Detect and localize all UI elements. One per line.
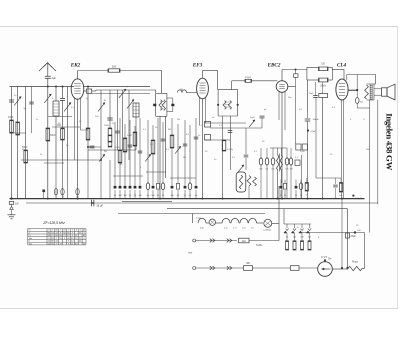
svg-text:SuWe: SuWe xyxy=(256,244,263,247)
svg-text:4,2t: 4,2t xyxy=(224,226,228,229)
svg-text:Takt: Takt xyxy=(29,237,33,240)
svg-text:1M: 1M xyxy=(290,169,293,171)
svg-text:70pF: 70pF xyxy=(309,93,315,95)
svg-text:Ingelen 438 GW: Ingelen 438 GW xyxy=(385,113,395,170)
svg-text:Regw: Regw xyxy=(352,261,358,264)
svg-text:Tr: Tr xyxy=(363,118,365,121)
svg-text:GW: GW xyxy=(366,149,370,151)
svg-text:5M: 5M xyxy=(168,129,171,131)
svg-text:Fr: Fr xyxy=(297,226,299,229)
svg-text:1,7t: 1,7t xyxy=(233,226,237,229)
svg-text:Kr: Kr xyxy=(29,230,31,232)
svg-text:0,5Mg: 0,5Mg xyxy=(227,149,234,151)
svg-text:EF3: EF3 xyxy=(192,63,203,69)
svg-text:1M: 1M xyxy=(123,195,126,197)
svg-text:Takt: Takt xyxy=(29,242,33,245)
svg-text:EBC2: EBC2 xyxy=(267,63,281,69)
svg-text:2,9t: 2,9t xyxy=(242,226,246,229)
svg-text:5000: 5000 xyxy=(50,134,56,137)
svg-text:ZF=128,5 kHz: ZF=128,5 kHz xyxy=(42,221,65,225)
svg-text:1M: 1M xyxy=(138,195,141,197)
svg-text:CL4: CL4 xyxy=(337,63,347,69)
svg-text:new: new xyxy=(188,253,193,255)
svg-text:28 μF: 28 μF xyxy=(97,205,104,208)
svg-text:2M: 2M xyxy=(183,157,186,159)
svg-text:2M: 2M xyxy=(151,195,154,197)
svg-text:EK2: EK2 xyxy=(70,63,81,69)
svg-text:Skl: Skl xyxy=(328,258,332,261)
svg-text:1000: 1000 xyxy=(104,125,110,127)
svg-text:1,7t: 1,7t xyxy=(251,226,255,229)
svg-text:1M: 1M xyxy=(170,195,173,197)
svg-text:100μF: 100μF xyxy=(356,198,363,200)
svg-text:2M: 2M xyxy=(177,119,180,121)
svg-text:220: 220 xyxy=(242,240,247,243)
svg-text:500: 500 xyxy=(112,65,117,69)
svg-text:50pF: 50pF xyxy=(250,117,255,119)
svg-text:0,5μg: 0,5μg xyxy=(196,218,202,220)
svg-text:5Ω: 5Ω xyxy=(360,102,363,104)
svg-text:0,1MΩg: 0,1MΩg xyxy=(263,230,271,232)
svg-text:5M: 5M xyxy=(118,195,121,197)
svg-text:C VT: C VT xyxy=(321,255,327,259)
svg-text:2pF: 2pF xyxy=(52,76,57,80)
svg-text:500pF: 500pF xyxy=(245,77,252,79)
svg-text:20kΩ: 20kΩ xyxy=(320,86,326,88)
svg-text:5nF: 5nF xyxy=(15,204,20,206)
svg-text:47nF: 47nF xyxy=(311,131,317,133)
svg-text:1000: 1000 xyxy=(8,116,14,119)
svg-text:25μF: 25μF xyxy=(351,236,357,238)
svg-text:Kr: Kr xyxy=(29,235,31,237)
